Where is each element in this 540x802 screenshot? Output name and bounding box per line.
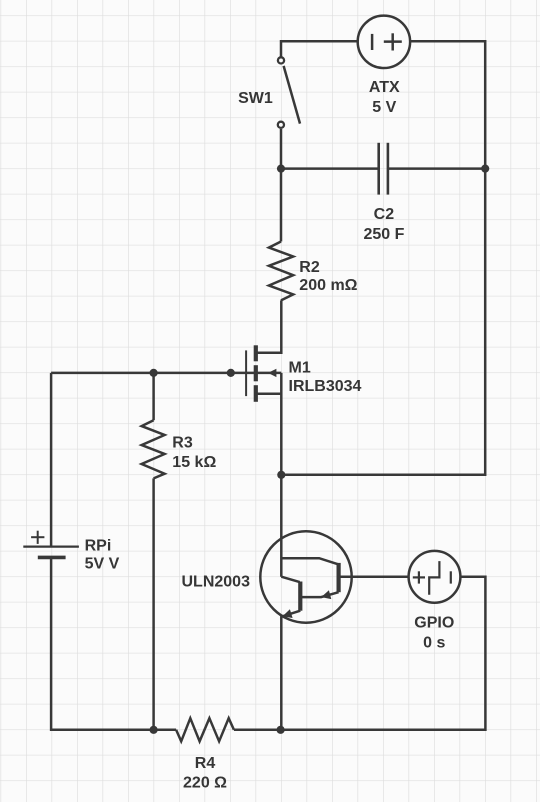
wire bottom from R4 right to right rail up to GPIO [234, 577, 486, 730]
Q1 emitter [302, 592, 339, 597]
step waveform [429, 561, 439, 595]
wire battery minus down to bottom wire and right to R4 [51, 559, 176, 730]
Q1 base bar [337, 563, 341, 592]
svg-text:R3: R3 [172, 435, 193, 452]
wire gate net from left rail to M1 gate [51, 372, 281, 375]
switch SW1 [278, 57, 300, 128]
SW1 blade [284, 66, 300, 124]
svg-text:C2: C2 [374, 206, 395, 223]
svg-text:5V V: 5V V [85, 556, 120, 573]
capacitor C2 [379, 143, 388, 195]
voltage source ATX [358, 16, 410, 68]
minus bar [450, 571, 452, 583]
ATX minus bar [371, 34, 374, 50]
svg-text:0 s: 0 s [423, 635, 445, 652]
node R3-bottom junction [150, 726, 158, 734]
svg-text:SW1: SW1 [238, 90, 273, 107]
Q2 collector diagonal [281, 577, 299, 582]
wire M1 source tee [256, 393, 281, 396]
svg-text:ATX: ATX [369, 79, 400, 96]
RPi negative plate [38, 556, 66, 560]
svg-text:220 Ω: 220 Ω [183, 774, 227, 791]
Q2 emitter arrow [283, 609, 293, 618]
Q2 emitter diagonal [283, 611, 301, 617]
svg-text:5 V: 5 V [372, 99, 396, 116]
wire ATX right to right rail and down to source connector [281, 41, 485, 475]
channel segment body [254, 365, 258, 381]
wire SW1 bottom down through C2 node to R2 top [280, 129, 283, 242]
node source connector junction [277, 471, 285, 479]
wire C2 right [388, 167, 485, 170]
node emitter-bottom junction [277, 726, 285, 734]
Q1 collector path [281, 558, 338, 564]
battery RPi [23, 531, 79, 558]
wire ULN2003 base to GPIO [339, 575, 409, 578]
C2 right plate [387, 143, 390, 195]
GPIO circle body [409, 551, 461, 603]
node gate pin junction [227, 369, 235, 377]
wire R2 bottom to M1 drain [256, 300, 281, 352]
body arrow of M1 [268, 369, 276, 377]
wire ULN2003 emitter down to bottom wire [280, 616, 283, 730]
SW1 terminal 1 [278, 57, 284, 63]
ATX circle body [358, 16, 410, 68]
C2 left plate [377, 143, 380, 195]
node C2-left junction [277, 165, 285, 173]
gate plate [245, 350, 247, 396]
wire R3 top lead [152, 373, 155, 420]
node C2-right junction [481, 165, 489, 173]
node R3-top junction [150, 369, 158, 377]
SW1 terminal 2 [278, 122, 284, 128]
plus mark [413, 576, 425, 578]
transistor ULN2003 (darlington) [260, 531, 351, 622]
wire top-left from SW1 up and right to ATX [281, 41, 358, 56]
wire C2 left [281, 167, 379, 170]
wire M1 body/source down to ULN2003 collector [280, 373, 283, 577]
svg-text:15 kΩ: 15 kΩ [172, 454, 216, 471]
resistor R2 [269, 242, 293, 301]
channel segment source [254, 385, 258, 402]
channel segment drain [254, 345, 258, 361]
svg-text:ULN2003: ULN2003 [182, 573, 251, 590]
svg-text:IRLB3034: IRLB3034 [289, 378, 362, 395]
resistor R4 [176, 718, 234, 741]
Q2 base bar [298, 582, 302, 611]
ATX plus mark [384, 40, 402, 43]
svg-text:200 mΩ: 200 mΩ [299, 277, 357, 294]
plus mark [31, 536, 44, 538]
svg-text:M1: M1 [289, 359, 311, 376]
svg-text:250 F: 250 F [363, 226, 404, 243]
svg-text:R2: R2 [299, 259, 320, 276]
source GPIO [409, 551, 461, 603]
transistor M1 (NMOS) [246, 345, 256, 402]
wire left rail down to battery [50, 373, 53, 546]
wire R3 bottom lead to bottom wire [152, 478, 155, 729]
svg-text:GPIO: GPIO [414, 615, 454, 632]
resistor R3 [142, 420, 165, 478]
svg-text:R4: R4 [195, 755, 216, 772]
svg-text:RPi: RPi [85, 538, 112, 555]
RPi positive plate [23, 545, 79, 547]
Q1 emitter arrow [321, 590, 331, 599]
